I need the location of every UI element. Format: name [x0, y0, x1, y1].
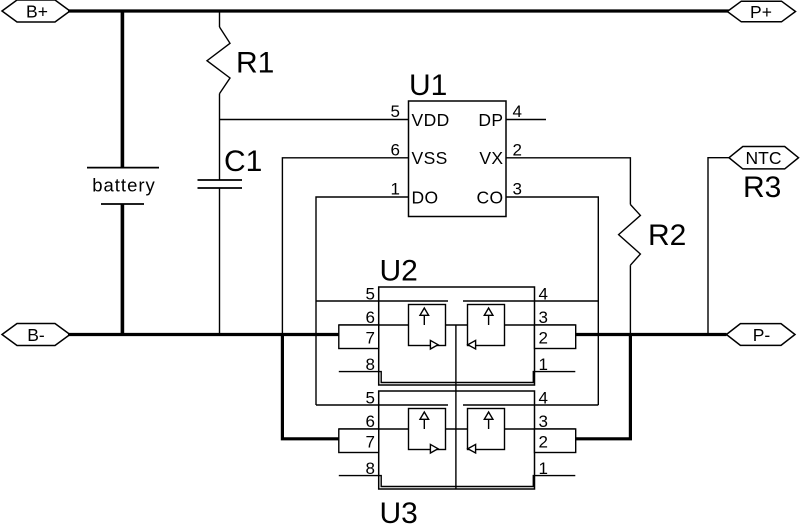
svg-text:3: 3: [513, 180, 522, 199]
wire B- branch to U3 pin 7: [282, 335, 338, 439]
svg-text:2: 2: [539, 433, 548, 452]
wire DO pin 1 of U1 down to U3: [316, 197, 409, 405]
wire top rail to R1: [219, 11, 221, 27]
node B-: [2, 324, 70, 346]
svg-text:R2: R2: [648, 219, 686, 252]
wire U2 gate 2 (pin 4) from CO: [463, 300, 598, 302]
wire VX pin 2 of U1 to R2: [506, 158, 630, 205]
wire DP pin 4 stub: [506, 119, 546, 121]
wire U3 gate 1 (pin 5) from DO: [316, 404, 448, 406]
svg-text:6: 6: [366, 308, 375, 327]
resistor R2: [619, 205, 641, 266]
svg-text:U2: U2: [380, 254, 418, 287]
wire top rail B+ to P+: [68, 9, 729, 12]
node NTC: [729, 147, 799, 169]
svg-text:1: 1: [391, 180, 400, 199]
svg-text:4: 4: [539, 285, 548, 304]
node P+: [727, 1, 795, 22]
svg-text:VX: VX: [479, 148, 503, 168]
U3 MOSFET Q3: [409, 409, 446, 454]
capacitor C1: [198, 180, 243, 188]
wire C1 to B- rail: [219, 188, 221, 335]
U2 MOSFET Q1: [409, 305, 446, 350]
U3 MOSFET Q4: [468, 409, 505, 454]
svg-text:U1: U1: [409, 69, 447, 102]
svg-text:P-: P-: [753, 325, 771, 345]
svg-text:6: 6: [391, 141, 400, 160]
svg-text:2: 2: [513, 141, 522, 160]
U2 pins 8-1 wrap wire: [339, 372, 576, 383]
svg-text:5: 5: [366, 285, 375, 304]
U2 source line pins 6-3: [339, 324, 576, 326]
resistor R1: [207, 27, 230, 94]
svg-text:6: 6: [366, 412, 375, 431]
U3 pin 2 sense resistor box: [535, 429, 576, 453]
node P-: [726, 324, 795, 346]
wire U3 pin 2 to P- rail: [576, 335, 631, 439]
svg-text:C1: C1: [224, 145, 262, 178]
svg-text:DP: DP: [478, 110, 503, 130]
U3 pin 7 sense resistor box: [339, 429, 379, 453]
U3 pins 8-1 wrap wire: [339, 476, 576, 487]
U3 source line pins 6-3: [339, 428, 576, 430]
wire battery to B- rail: [121, 204, 125, 335]
wire VSS pin 6 of U1 to B- rail: [282, 158, 408, 335]
svg-text:B-: B-: [27, 325, 45, 345]
U2 pin 2 sense resistor box: [535, 325, 576, 349]
svg-text:8: 8: [366, 355, 375, 374]
svg-text:7: 7: [366, 329, 375, 348]
svg-text:3: 3: [539, 412, 548, 431]
svg-text:5: 5: [366, 389, 375, 408]
svg-text:5: 5: [391, 102, 400, 121]
IC U2 box: [379, 287, 535, 385]
battery: [87, 168, 159, 204]
svg-text:8: 8: [366, 459, 375, 478]
wire common tie U2/U3 center: [455, 325, 457, 489]
svg-text:VSS: VSS: [412, 148, 448, 168]
IC U3 box: [379, 391, 535, 489]
svg-text:2: 2: [539, 329, 548, 348]
svg-text:3: 3: [539, 308, 548, 327]
wire U2 gate 1 (pin 5) from DO: [316, 300, 448, 302]
wire R1 to C1: [219, 94, 221, 180]
wire CO pin 3 of U1 down to U3: [506, 197, 598, 405]
svg-text:4: 4: [539, 389, 548, 408]
svg-text:VDD: VDD: [412, 110, 450, 130]
svg-text:CO: CO: [476, 187, 503, 207]
wire VDD pin 5 of U1: [220, 119, 409, 121]
wire R2 to P- rail: [629, 265, 631, 334]
wire B- rail: [68, 333, 339, 336]
svg-text:4: 4: [513, 102, 522, 121]
wire NTC to P- rail: [708, 158, 729, 335]
wire P- rail: [576, 333, 727, 336]
svg-text:NTC: NTC: [746, 148, 782, 168]
wire top rail to battery: [121, 11, 125, 168]
svg-text:1: 1: [539, 459, 548, 478]
svg-text:P+: P+: [750, 2, 772, 22]
svg-text:R3: R3: [743, 171, 781, 204]
svg-text:U3: U3: [380, 497, 418, 524]
svg-text:battery: battery: [92, 175, 156, 196]
IC U1 box: [409, 101, 507, 217]
svg-text:DO: DO: [412, 187, 439, 207]
node B+: [2, 0, 70, 22]
svg-text:B+: B+: [26, 1, 48, 21]
svg-text:1: 1: [539, 355, 548, 374]
wire U3 gate 2 (pin 4) from CO: [463, 404, 598, 406]
svg-text:7: 7: [366, 433, 375, 452]
svg-text:R1: R1: [236, 47, 274, 80]
U2 pin 7 sense resistor box: [339, 325, 379, 349]
U2 MOSFET Q2: [468, 305, 505, 350]
